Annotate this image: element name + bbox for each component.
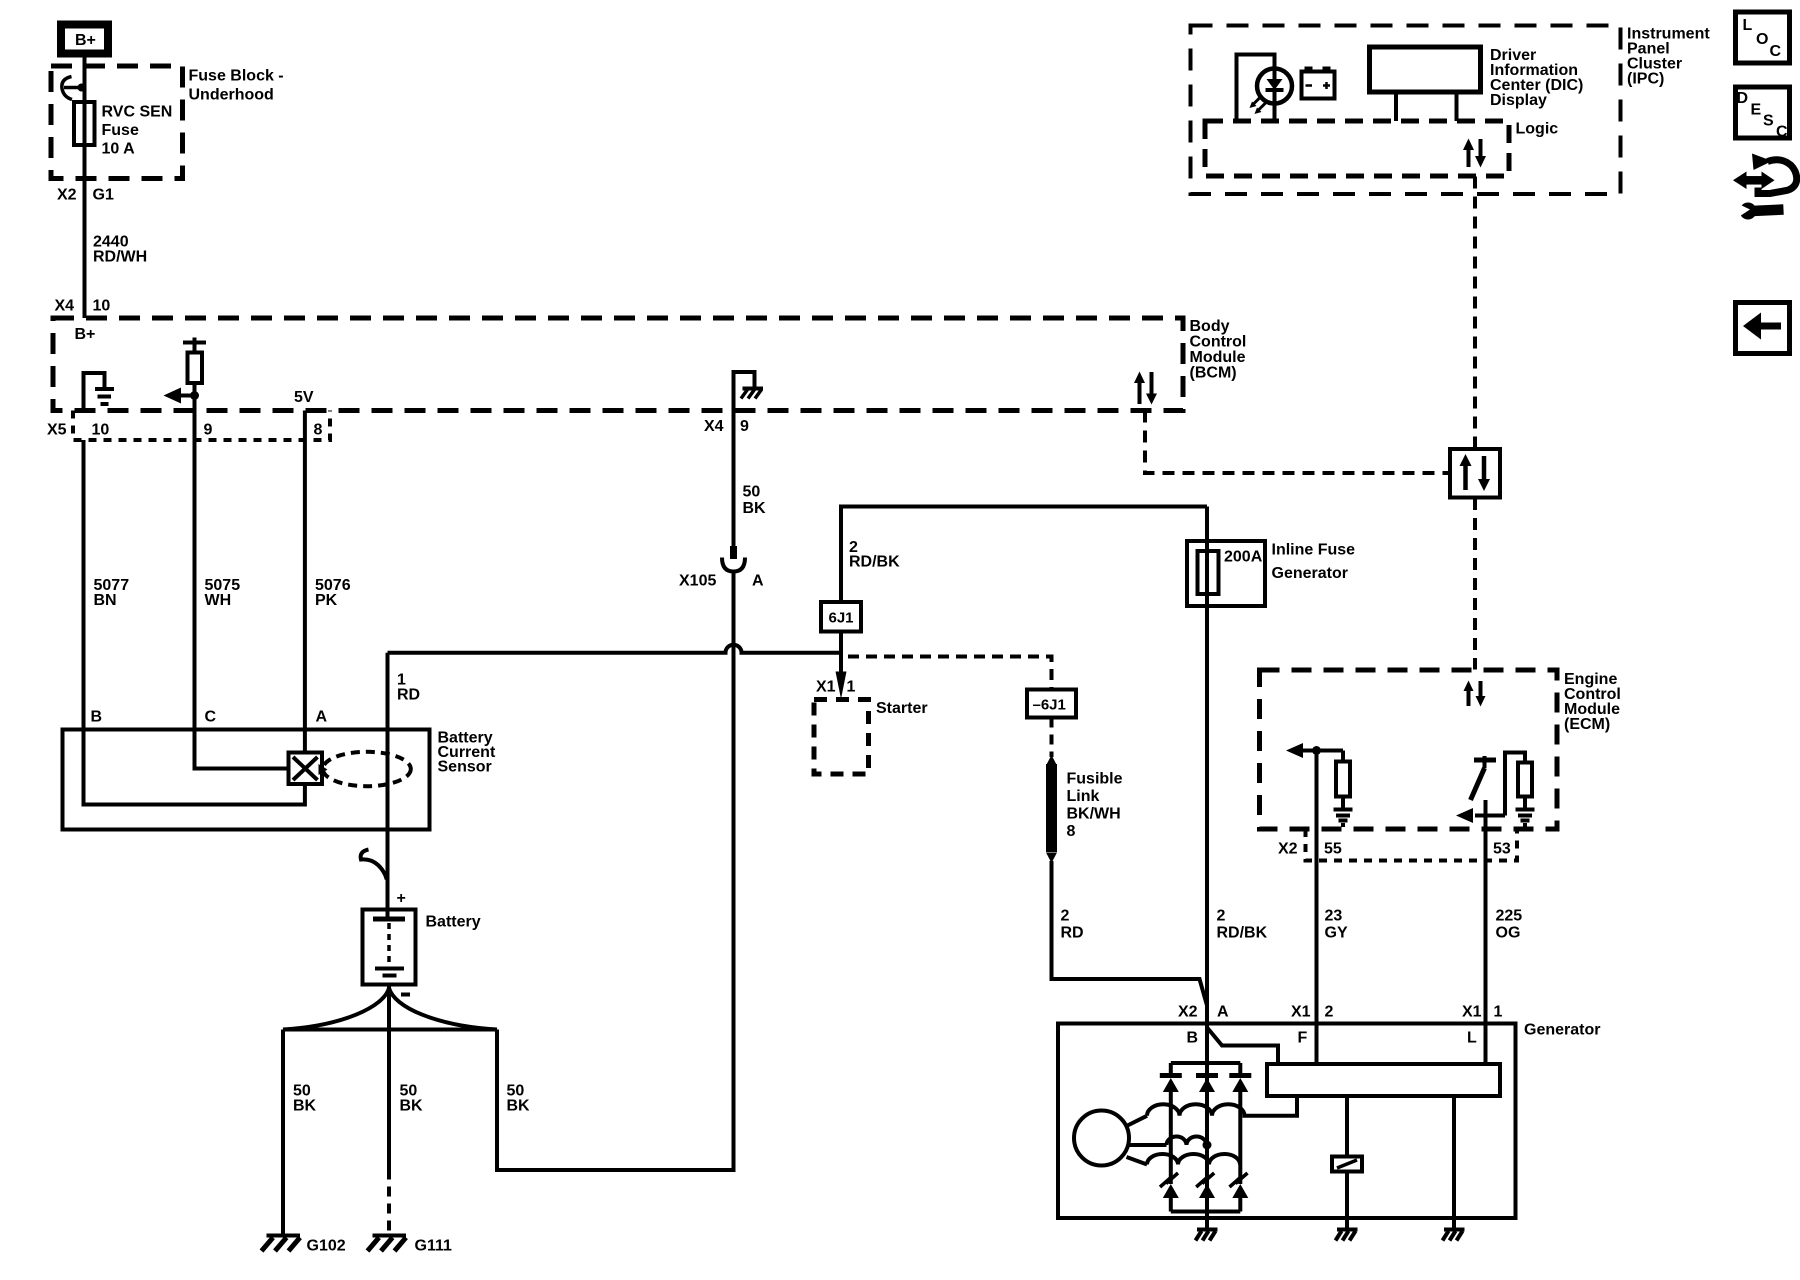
ECM box bbox=[1260, 670, 1558, 829]
stator windings bbox=[1126, 1096, 1298, 1165]
svg-text:G1: G1 bbox=[93, 187, 114, 204]
fuse block underhood label bbox=[189, 68, 284, 104]
regulator right ground wire bbox=[1452, 1096, 1456, 1218]
svg-text:BN: BN bbox=[94, 592, 117, 609]
svg-text:RD: RD bbox=[1061, 925, 1084, 942]
wire 5075 WH (X5-9 to sensor pin C) bbox=[195, 440, 241, 730]
serial data gateway box bbox=[1450, 449, 1500, 498]
svg-text:L: L bbox=[1467, 1030, 1477, 1047]
ECM pin 55 monitor arrow and junction bbox=[1286, 743, 1343, 762]
svg-text:50: 50 bbox=[743, 484, 761, 501]
connector X2 pin A labels (generator) bbox=[1178, 1004, 1229, 1021]
svg-text:RD/BK: RD/BK bbox=[1217, 925, 1268, 942]
BCM internal ground from X5-10 bbox=[84, 373, 115, 411]
wire 2 RD/BK generator feed to 6J1 bbox=[841, 507, 1207, 603]
fuse block underhood box bbox=[51, 66, 183, 179]
svg-text:A: A bbox=[752, 573, 764, 590]
svg-text:A: A bbox=[316, 709, 328, 726]
svg-text:Battery: Battery bbox=[426, 914, 481, 931]
svg-text:2: 2 bbox=[1325, 1004, 1334, 1021]
svg-text:53: 53 bbox=[1493, 841, 1511, 858]
main positive junction wire (horizontal) bbox=[388, 645, 842, 653]
generator main B wire bbox=[1205, 1024, 1209, 1218]
svg-text:C: C bbox=[1770, 43, 1782, 60]
svg-text:OG: OG bbox=[1496, 925, 1521, 942]
ECM resistor to ground (pin 55) bbox=[1334, 762, 1353, 826]
serial data wire gateway to ECM bbox=[1473, 498, 1477, 670]
svg-text:RD: RD bbox=[397, 687, 420, 704]
svg-text:BK: BK bbox=[507, 1098, 531, 1115]
BCM serial data arrows bbox=[1134, 372, 1157, 405]
svg-text:X4: X4 bbox=[704, 418, 724, 435]
BCM internal ground at X4-9 bbox=[734, 372, 764, 411]
svg-text:PK: PK bbox=[315, 592, 338, 609]
svg-text:L: L bbox=[1743, 17, 1753, 34]
svg-text:B: B bbox=[91, 709, 103, 726]
warning lamp element in generator bbox=[1332, 1096, 1362, 1218]
wire 6J1 to starter with arrow bbox=[836, 632, 847, 700]
svg-text:9: 9 bbox=[740, 418, 749, 435]
svg-text:X1: X1 bbox=[1462, 1004, 1482, 1021]
wire 5076 PK (X5-8 to sensor pin A) bbox=[305, 411, 351, 730]
svg-text:C: C bbox=[205, 709, 217, 726]
battery current sensor box bbox=[63, 730, 430, 830]
svg-text:X1: X1 bbox=[1291, 1004, 1311, 1021]
pull-up resistor in BCM bbox=[183, 338, 206, 441]
ground G111 bbox=[368, 1236, 452, 1255]
svg-text:10: 10 bbox=[92, 422, 110, 439]
dashed wire -6J1 to fusible link bbox=[1050, 718, 1054, 758]
svg-text:10: 10 bbox=[93, 298, 111, 315]
battery B1 bbox=[363, 910, 481, 985]
connector X2 pin G1 labels bbox=[57, 187, 114, 204]
svg-text:Generator: Generator bbox=[1272, 565, 1348, 582]
wire 225 OG ECM to generator pin L bbox=[1486, 861, 1523, 1065]
rotor bbox=[1074, 1111, 1129, 1166]
svg-text:X105: X105 bbox=[679, 573, 716, 590]
svg-text:9: 9 bbox=[204, 422, 213, 439]
svg-text:WH: WH bbox=[205, 592, 232, 609]
wire ECM pin 55 bbox=[1315, 751, 1319, 861]
X2 pin labels 55 53 bbox=[1278, 841, 1511, 858]
starter box bbox=[814, 700, 928, 775]
DIC label bbox=[1490, 47, 1583, 109]
wire 5077 BN (X5-10 to sensor pin B) bbox=[84, 440, 130, 730]
generator ground (lamp) bbox=[1336, 1218, 1358, 1241]
svg-text:D: D bbox=[1737, 90, 1749, 107]
svg-text:X2: X2 bbox=[57, 187, 77, 204]
svg-text:(IPC): (IPC) bbox=[1627, 71, 1664, 88]
wire 50 BK battery negative to X105 bbox=[497, 572, 734, 1171]
svg-text:B: B bbox=[1187, 1030, 1199, 1047]
hall element X box bbox=[289, 753, 328, 785]
generator B+ tap to regulator bbox=[1208, 1028, 1279, 1064]
generator box bbox=[1058, 1022, 1600, 1219]
svg-text:5V: 5V bbox=[294, 389, 314, 406]
svg-text:225: 225 bbox=[1496, 908, 1523, 925]
charge indicator lamp circuit in IPC bbox=[1237, 55, 1293, 122]
svg-text:B+: B+ bbox=[75, 326, 96, 343]
inline connector X105 bbox=[679, 546, 764, 590]
svg-text:Display: Display bbox=[1490, 92, 1547, 109]
ECM label bbox=[1564, 671, 1621, 733]
svg-text:Generator: Generator bbox=[1524, 1022, 1600, 1039]
svg-text:Fuse: Fuse bbox=[102, 122, 139, 139]
svg-text:(ECM): (ECM) bbox=[1564, 716, 1610, 733]
svg-text:A: A bbox=[1217, 1004, 1229, 1021]
fuse RVC SEN 10A bbox=[74, 102, 95, 145]
serial data wire BCM to gateway bbox=[1145, 411, 1450, 474]
ECM serial data arrows bbox=[1464, 681, 1486, 707]
svg-text:BK: BK bbox=[400, 1098, 424, 1115]
battery telltale icon in IPC bbox=[1302, 67, 1335, 99]
BCM box bbox=[53, 318, 1183, 411]
battery current sensor label bbox=[438, 730, 496, 776]
svg-text:Module: Module bbox=[1190, 349, 1246, 366]
generator ground (B) bbox=[1196, 1218, 1218, 1241]
svg-text:E: E bbox=[1751, 102, 1762, 119]
svg-text:GY: GY bbox=[1325, 925, 1348, 942]
splice -6J1 bbox=[1027, 690, 1076, 718]
fuse value label RVC SEN Fuse 10 A bbox=[102, 104, 173, 158]
svg-text:G102: G102 bbox=[307, 1238, 346, 1255]
connector X4 pin 10 labels bbox=[55, 298, 111, 315]
clamp symbol at fuse block input bbox=[62, 77, 86, 100]
splice 6J1 bbox=[821, 602, 861, 632]
LOC nav icon bbox=[1736, 12, 1790, 63]
signal arrow and junction in BCM bbox=[164, 388, 200, 404]
svg-text:(BCM): (BCM) bbox=[1190, 365, 1237, 382]
svg-text:Body: Body bbox=[1190, 318, 1230, 335]
svg-text:Inline Fuse: Inline Fuse bbox=[1272, 542, 1356, 559]
svg-text:Starter: Starter bbox=[876, 700, 928, 717]
logic box in IPC bbox=[1205, 121, 1558, 177]
voltage regulator bbox=[1267, 1064, 1500, 1096]
svg-text:Sensor: Sensor bbox=[438, 759, 492, 776]
connector X1 pin 1 labels (starter) bbox=[816, 679, 856, 696]
svg-text:G111: G111 bbox=[415, 1238, 452, 1255]
wire 2 RD/BK inline fuse to generator pin B bbox=[1207, 507, 1268, 1024]
svg-text:2: 2 bbox=[1217, 908, 1226, 925]
svg-text:–6J1: –6J1 bbox=[1033, 697, 1066, 714]
connector X1 pin 2 labels bbox=[1291, 1004, 1334, 1021]
wire label 2440 RD/WH bbox=[93, 234, 147, 266]
DIC display box bbox=[1370, 47, 1481, 121]
svg-text:BK/WH: BK/WH bbox=[1067, 806, 1121, 823]
svg-text:1: 1 bbox=[1494, 1004, 1503, 1021]
svg-text:200A: 200A bbox=[1224, 549, 1263, 566]
battery negative splay wires bbox=[283, 985, 497, 1030]
generator ground (regulator) bbox=[1443, 1218, 1465, 1241]
svg-text:23: 23 bbox=[1325, 908, 1343, 925]
svg-text:RVC SEN: RVC SEN bbox=[102, 104, 173, 121]
wire 50 BK BCM X4-9 to X105 bbox=[734, 411, 767, 547]
svg-text:F: F bbox=[1298, 1030, 1308, 1047]
svg-text:X2: X2 bbox=[1178, 1004, 1198, 1021]
svg-text:Logic: Logic bbox=[1516, 121, 1559, 138]
connector X5 box bbox=[73, 411, 330, 441]
ground G102 bbox=[262, 1236, 346, 1255]
connector X1 pin 1 labels (generator) bbox=[1462, 1004, 1503, 1021]
wire 2 RD fusible link to generator bbox=[1052, 861, 1208, 1006]
sensor clamp dashed ellipse bbox=[323, 752, 411, 786]
svg-text:Fuse Block -: Fuse Block - bbox=[189, 68, 284, 85]
wire 50 BK to G111 bbox=[389, 1030, 423, 1236]
svg-text:+: + bbox=[397, 890, 406, 907]
svg-text:8: 8 bbox=[314, 422, 323, 439]
serial data wire logic to gateway bbox=[1473, 177, 1477, 449]
battery minus label bbox=[401, 993, 410, 997]
generator pin letters B F L bbox=[1187, 1030, 1478, 1047]
connector X4 pin 9 labels bbox=[704, 418, 749, 435]
BCM label bbox=[1190, 318, 1247, 382]
svg-text:RD/BK: RD/BK bbox=[849, 554, 900, 571]
IPC label bbox=[1627, 26, 1710, 88]
B+ power feed box bbox=[61, 25, 108, 54]
fusible link BK/WH 8 bbox=[1046, 755, 1123, 863]
svg-text:Underhood: Underhood bbox=[189, 87, 274, 104]
rectifier bridge bbox=[1160, 1063, 1252, 1212]
svg-text:55: 55 bbox=[1324, 841, 1342, 858]
svg-text:6J1: 6J1 bbox=[829, 610, 854, 627]
wiring route icon bbox=[1733, 154, 1797, 220]
ECM switch (pin 53) bbox=[1456, 756, 1505, 861]
svg-text:X5: X5 bbox=[47, 422, 67, 439]
svg-text:S: S bbox=[1763, 113, 1774, 130]
svg-text:O: O bbox=[1756, 31, 1768, 48]
svg-text:X4: X4 bbox=[55, 298, 75, 315]
svg-text:X1: X1 bbox=[816, 679, 836, 696]
svg-text:C: C bbox=[1776, 124, 1788, 141]
svg-text:B+: B+ bbox=[75, 32, 96, 49]
IPC box bbox=[1191, 26, 1621, 195]
connector X2 box (ECM) bbox=[1306, 829, 1518, 861]
svg-text:Link: Link bbox=[1067, 788, 1100, 805]
svg-text:X2: X2 bbox=[1278, 841, 1298, 858]
ECM resistor to ground (pin 53) bbox=[1505, 753, 1535, 826]
svg-text:BK: BK bbox=[293, 1098, 317, 1115]
wire 23 GY ECM to generator pin F bbox=[1317, 861, 1348, 1065]
svg-text:BK: BK bbox=[743, 500, 767, 517]
wire 1 RD (junction to battery) bbox=[388, 653, 421, 919]
logic serial data arrows bbox=[1463, 139, 1486, 168]
wire 50 BK to G102 bbox=[283, 1030, 317, 1236]
svg-text:RD/WH: RD/WH bbox=[93, 249, 147, 266]
svg-text:1: 1 bbox=[847, 679, 856, 696]
battery positive clamp symbol bbox=[361, 850, 387, 880]
svg-text:8: 8 bbox=[1067, 823, 1076, 840]
svg-text:10 A: 10 A bbox=[102, 141, 136, 158]
X5 pin labels 10 9 8 bbox=[47, 422, 323, 439]
dashed wire starter node to -6J1 bbox=[848, 657, 1052, 690]
inline fuse 200A generator bbox=[1187, 541, 1355, 606]
svg-text:2: 2 bbox=[1061, 908, 1070, 925]
svg-text:Fusible: Fusible bbox=[1067, 771, 1123, 788]
DESC nav icon bbox=[1736, 87, 1790, 141]
back arrow nav icon bbox=[1736, 303, 1790, 354]
svg-text:Control: Control bbox=[1190, 334, 1247, 351]
wire B+ to BCM X4-10 (2440 RD/WH) bbox=[83, 58, 87, 319]
sensor internal wiring loop bbox=[84, 730, 305, 805]
